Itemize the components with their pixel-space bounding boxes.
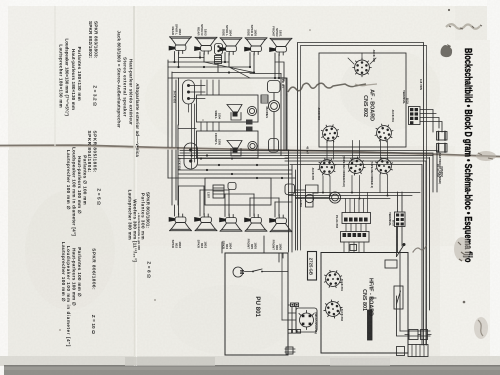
AF terminal block [409, 107, 421, 125]
FM whip antenna [397, 244, 405, 257]
wires PU to mic connector [282, 305, 296, 332]
AM bar antenna inside HF [368, 310, 373, 340]
wire from row area down to PU [222, 236, 264, 253]
trimmer circle R [248, 141, 257, 150]
lower sub box [205, 178, 271, 205]
crease squiggle mid right [413, 246, 426, 252]
speck top [448, 9, 450, 11]
terminal squares left of mic [291, 303, 295, 307]
wires socket down to HF board [344, 242, 364, 252]
wires terminal to mains plugs [420, 110, 442, 133]
AF board inner box [319, 53, 406, 147]
stain right low [454, 237, 470, 261]
blotch right of AF box [441, 45, 453, 57]
IF transistor circle bottom [322, 298, 343, 319]
ferrite rod antenna [409, 330, 418, 340]
crease scribble across AF left [288, 83, 366, 92]
SOCKET 803 connector strip [341, 232, 370, 243]
relay box right of lower sub box [285, 184, 295, 195]
mains plug PLUG802 lower [437, 144, 448, 153]
speaker row2 1 [169, 214, 192, 231]
speaker row2 3 [219, 214, 242, 231]
speaker row2 5 [269, 215, 292, 232]
vertical wires from bus down [192, 80, 220, 168]
speaker SPKR802 top row 1 [169, 37, 192, 54]
front speaker sub-box R [197, 131, 259, 158]
speaker SPKR803 top row 2 [194, 37, 217, 54]
small resistor blocks below socket [350, 245, 357, 251]
jack pill JACK803 [183, 80, 195, 104]
DIN microphone connector box [296, 308, 317, 332]
wire leads from top speakers [175, 52, 280, 79]
AF circle leads [327, 53, 388, 159]
phones circle [268, 100, 279, 111]
bottom gray band [0, 356, 500, 366]
wires to ferrite rod [397, 296, 431, 336]
right mid jack block [268, 81, 281, 93]
horizontal fold crease [0, 145, 500, 156]
DIN tape2 [372, 154, 396, 178]
trimmer circle L [247, 106, 256, 115]
speaker icon R [227, 141, 242, 157]
meter circle [329, 192, 340, 203]
stain right mid [476, 151, 496, 161]
speaker row2 4 [244, 214, 267, 231]
mid horizontal wires [168, 156, 296, 179]
hatched block left of phones [261, 95, 268, 103]
DIN jack805 [314, 154, 339, 179]
hatched block B [213, 185, 224, 198]
bottom edge smudge [125, 357, 215, 366]
small box above HF [385, 260, 397, 268]
top horizontal wire bus [168, 58, 286, 151]
speaker icon L [227, 105, 242, 121]
AF transistor circle left [318, 122, 342, 146]
trunk continues below fold [168, 150, 176, 205]
IF transistor circle top [321, 267, 345, 291]
paper mottling patches [10, 40, 455, 355]
volume rounded box [269, 139, 279, 153]
speaker SPKR805 top row 4 [244, 38, 267, 55]
PLUG 803 connector strip [342, 213, 371, 224]
speaker row2 2 [194, 214, 217, 231]
DIN leads down [323, 175, 388, 199]
motor switch [245, 269, 289, 272]
paper grain [0, 0, 1, 1]
speaker SPKR806 top row 5 [269, 38, 292, 55]
enclosure box top [178, 125, 196, 205]
right wire bundle turning down [422, 151, 437, 346]
stain bottom right [474, 317, 488, 339]
fuse hatched block under jack [215, 56, 222, 64]
vertical wires to PLUG803 [346, 193, 368, 213]
tuner DIN on AF board [353, 58, 371, 76]
leads up from row2 speakers [175, 186, 280, 217]
subtle shading patches [8, 150, 138, 366]
left trunk wires down [168, 60, 176, 147]
front speaker sub-box L [197, 95, 259, 122]
wires to right mid column [250, 62, 287, 95]
stain squiggle top right [446, 24, 480, 29]
AF transistor circle right [373, 122, 396, 145]
speaker SPKR804 top row 3 [219, 38, 242, 55]
tuning indicator rect [394, 286, 403, 309]
mains plug PLUG802 upper [437, 132, 448, 141]
jack component between spk2 and spk3 [215, 44, 223, 55]
DIN tape1 [345, 155, 366, 176]
bus below DIN row [289, 193, 421, 199]
bottom small connectors [397, 347, 405, 356]
lamp polygon [306, 185, 319, 207]
junction dots on bus [173, 56, 280, 79]
motor M [233, 267, 243, 277]
jack pill JACK801 [184, 143, 198, 169]
2725 GB label box [308, 252, 317, 281]
vertical fold crease [133, 6, 135, 150]
hatched pair between boxes [246, 120, 253, 125]
TERMINAL BOX right [395, 212, 406, 227]
